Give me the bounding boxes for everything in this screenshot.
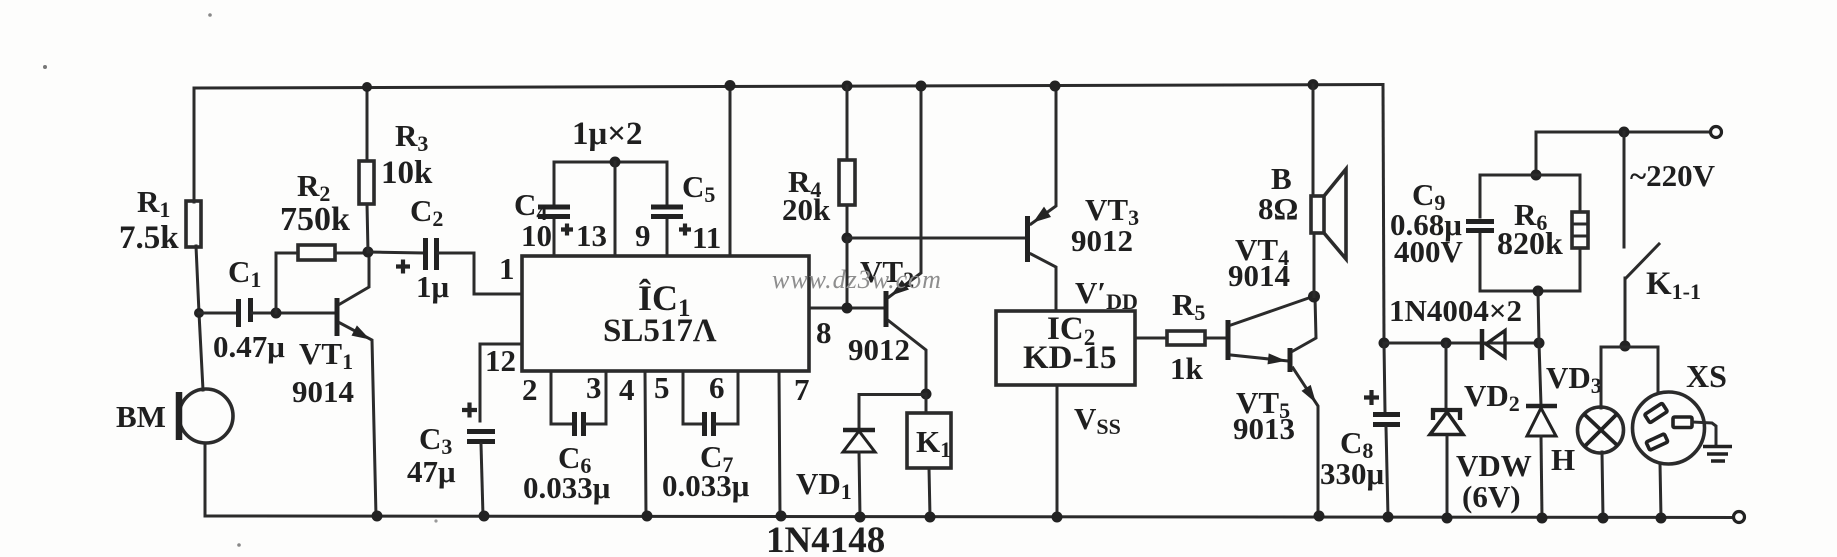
wire R5 to VT4 (1205, 337, 1226, 340)
svg-text:0.033μ: 0.033μ (662, 468, 750, 503)
node dropper tap (1534, 338, 1545, 349)
wire R2 right (335, 252, 368, 255)
node XS bus (1656, 513, 1667, 524)
node speaker bus (1308, 79, 1319, 90)
node C1 junction (194, 308, 204, 318)
svg-text:7.5k: 7.5k (119, 220, 179, 256)
svg-text:KD-15: KD-15 (1023, 340, 1117, 376)
node R3 top (362, 82, 372, 92)
svg-text:www.dz3w.com: www.dz3w.com (772, 265, 942, 294)
svg-text:H: H (1551, 442, 1575, 477)
capacitor C3 (467, 432, 495, 442)
svg-text:C2: C2 (410, 193, 443, 231)
svg-text:1μ: 1μ (416, 269, 450, 304)
resistor R2 (298, 245, 335, 260)
svg-text:BM: BM (116, 399, 166, 434)
node VT5 emitter bus (1314, 511, 1325, 522)
svg-text:9012: 9012 (1071, 223, 1133, 258)
node VSS bus (1052, 512, 1063, 523)
node R2 junction (271, 308, 282, 319)
label C2 plus (396, 260, 410, 274)
svg-text:K1: K1 (916, 424, 951, 462)
socket XS (1633, 392, 1705, 464)
diode VD3 (1539, 343, 1541, 405)
wire R4 node down to pin8 (846, 238, 849, 308)
node pin4 bus (642, 511, 653, 522)
resistor R5 (1167, 331, 1205, 345)
node VT2 emitter bus (916, 81, 927, 92)
node pin7 bus (776, 511, 787, 522)
wire pin12 to C3 (480, 344, 522, 421)
switch K1-1 (1623, 132, 1626, 247)
svg-text:20k: 20k (782, 192, 831, 227)
ground at XS (1692, 422, 1716, 444)
node C3 bus (479, 511, 490, 522)
diode VD2 series (1486, 331, 1505, 358)
capacitor C8 (1384, 343, 1385, 412)
zener diode VDW (1445, 343, 1448, 407)
node dropper top (1531, 170, 1542, 181)
svg-text:R5: R5 (1172, 287, 1205, 325)
svg-text:330μ: 330μ (1320, 456, 1385, 491)
svg-text:R3: R3 (395, 118, 428, 156)
svg-text:1k: 1k (1170, 351, 1204, 386)
wire pin6 bracket (715, 371, 738, 424)
svg-text:9012: 9012 (848, 332, 910, 367)
node VDW bus (1442, 513, 1453, 524)
node VD1 bus (855, 512, 866, 523)
wire DC rail (1384, 342, 1539, 345)
node VD3 bus (1537, 513, 1548, 524)
node VDW rail (1441, 338, 1452, 349)
wire left rail (194, 88, 203, 390)
node pin8 junction (842, 303, 853, 314)
label C3 plus (462, 403, 477, 418)
capacitor C4 (538, 207, 570, 217)
wire pin3 bracket (585, 371, 606, 424)
svg-text:VD3: VD3 (1546, 360, 1602, 398)
svg-text:(6V): (6V) (1462, 479, 1521, 514)
wire lamp feed (1601, 347, 1658, 408)
node VT2 collector K1 junction (921, 389, 932, 400)
svg-text:VSS: VSS (1074, 401, 1121, 439)
node VT4 collector (1308, 291, 1320, 303)
transistor VT1 (335, 298, 340, 336)
node dropper bottom tap (1533, 286, 1544, 297)
svg-text:9014: 9014 (292, 374, 354, 409)
wire dropper frame (1480, 175, 1580, 291)
node pin11 bus (725, 80, 736, 91)
node DC rail left (1379, 338, 1390, 349)
node R3 bottom junction (363, 247, 374, 258)
svg-text:9014: 9014 (1228, 258, 1290, 293)
wire pin13 (614, 162, 617, 256)
svg-text:C5: C5 (682, 169, 715, 207)
wire C3 to bus (481, 444, 483, 516)
node VT1 emitter at bus (372, 511, 383, 522)
svg-text:7: 7 (794, 372, 810, 407)
wire C2 to IC1 pin1 (438, 253, 522, 294)
IC U2 KD-15 (996, 311, 1135, 385)
svg-text:0.47μ: 0.47μ (213, 329, 285, 364)
transistor VT5 (1288, 348, 1293, 372)
resistor R1 (186, 201, 201, 247)
svg-text:VT1: VT1 (299, 336, 353, 374)
wire R3 branch (367, 87, 368, 252)
wire node to C2 (368, 252, 423, 253)
wire VD1 link (859, 395, 926, 430)
lamp H (1578, 407, 1624, 453)
svg-text:12: 12 (485, 343, 516, 378)
wire top supply bus (194, 85, 1383, 89)
svg-text:4: 4 (619, 372, 635, 407)
node VT3 emitter bus (1050, 81, 1061, 92)
svg-text:C1: C1 (228, 254, 261, 292)
svg-text:13: 13 (576, 218, 607, 253)
wire R4 branch (846, 86, 849, 238)
svg-text:10: 10 (521, 218, 552, 253)
node pin13 top (610, 157, 621, 168)
svg-text:47μ: 47μ (407, 454, 456, 489)
label C5 plus (679, 224, 691, 236)
resistor R6 (1572, 212, 1588, 248)
wire pin8 (809, 307, 885, 310)
terminal bottom right (1734, 512, 1745, 523)
svg-text:K1-1: K1-1 (1646, 266, 1701, 304)
wire mic to ground bus (204, 443, 207, 516)
resistor R3 (359, 161, 374, 204)
wire pin2 bracket (551, 371, 572, 424)
node lamp junction (1620, 341, 1631, 352)
IC U1 body (522, 256, 809, 371)
wire C1 to VT1 base (252, 312, 336, 315)
wire pin11 from bus (729, 85, 732, 256)
wire tap to rail (1538, 291, 1539, 343)
wire top bus right corner down (1383, 85, 1384, 344)
wire R4 node to VT3 base (847, 237, 1025, 240)
svg-text:1: 1 (499, 251, 515, 286)
node lamp bus (1598, 513, 1609, 524)
capacitor C1 (239, 298, 251, 327)
wire to C1 (199, 312, 236, 315)
svg-text:2: 2 (522, 372, 538, 407)
speaker B (1312, 85, 1315, 196)
wire bottom ground bus (205, 516, 1733, 518)
node K1 bus (925, 512, 936, 523)
node R4 bottom (842, 233, 853, 244)
svg-text:0.033μ: 0.033μ (523, 470, 611, 505)
svg-text:6: 6 (709, 370, 725, 405)
svg-text:750k: 750k (280, 201, 350, 238)
svg-text:10k: 10k (381, 155, 433, 191)
svg-text:VD1: VD1 (796, 466, 852, 504)
transistor VT4 (1226, 320, 1231, 360)
wire IC2 to R5 (1135, 337, 1167, 340)
wire R2 left branch (276, 253, 298, 313)
capacitor C6 (575, 412, 584, 436)
svg-text:VDW: VDW (1456, 448, 1532, 483)
label C8 plus (1364, 390, 1379, 405)
svg-text:400V: 400V (1394, 234, 1464, 269)
wire pin10 with C4 (553, 162, 556, 256)
svg-text:9: 9 (635, 218, 651, 253)
wire pin4 (645, 371, 646, 516)
svg-text:1N4004×2: 1N4004×2 (1389, 293, 1522, 328)
microphone BM (179, 389, 233, 443)
svg-text:5: 5 (654, 370, 670, 405)
svg-text:11: 11 (692, 220, 721, 255)
label C4 plus (561, 224, 573, 236)
capacitor C7 (705, 412, 714, 436)
wire VSS (1056, 385, 1059, 517)
wire pin9 with C5 (666, 162, 669, 256)
svg-text:XS: XS (1686, 358, 1727, 394)
svg-text:SL517Λ: SL517Λ (603, 313, 717, 349)
wire pin7 (779, 371, 780, 516)
svg-text:9013: 9013 (1233, 411, 1295, 446)
svg-text:V′DD: V′DD (1075, 275, 1138, 314)
wire dropper feed (1535, 132, 1538, 175)
capacitor C5 (651, 207, 683, 217)
node C8 bus (1383, 512, 1394, 523)
svg-text:8: 8 (816, 315, 832, 350)
node R4 bus (842, 81, 853, 92)
svg-text:820k: 820k (1497, 225, 1563, 261)
capacitor C9 (1466, 222, 1494, 231)
terminal mains top (1711, 127, 1722, 138)
svg-text:R1: R1 (137, 184, 170, 222)
relay K1 (925, 394, 928, 413)
resistor R4 (839, 160, 855, 205)
transistor VT3 (1025, 216, 1030, 262)
diode VD1 (843, 428, 875, 433)
svg-text:VD2: VD2 (1464, 378, 1520, 416)
svg-text:8Ω: 8Ω (1258, 191, 1298, 226)
node K1-1 top (1619, 127, 1630, 138)
svg-text:1N4148: 1N4148 (766, 520, 885, 557)
wire pin5 bracket (683, 371, 702, 424)
svg-text:~220V: ~220V (1630, 158, 1716, 193)
svg-text:3: 3 (586, 370, 602, 405)
wire mains top (1536, 131, 1710, 134)
svg-text:1μ×2: 1μ×2 (572, 116, 643, 152)
capacitor C2 (426, 238, 437, 270)
wire cap top link (554, 161, 667, 164)
transistor VT2 (884, 291, 889, 327)
